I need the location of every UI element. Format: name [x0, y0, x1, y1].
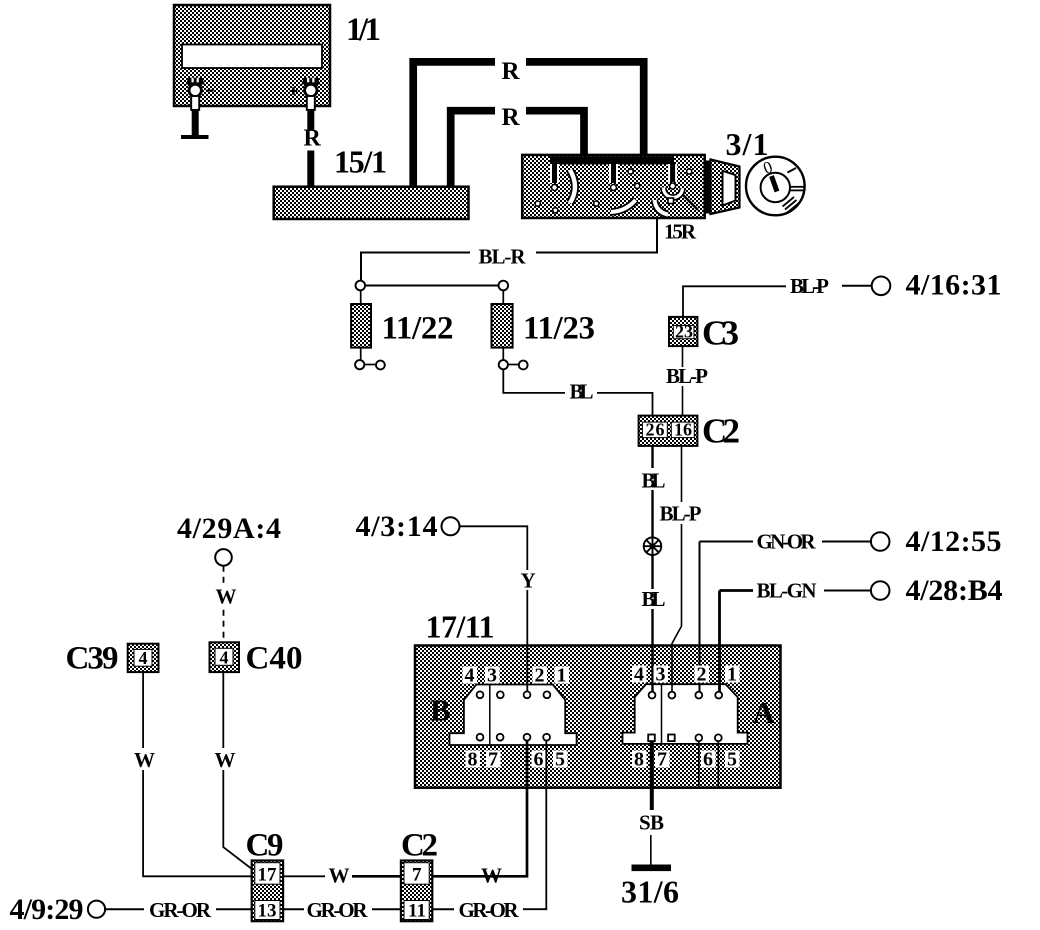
terminal circle 4/16:31	[872, 277, 891, 296]
wire	[143, 770, 252, 876]
wire GR-OR to C9	[105, 908, 144, 910]
B pin labels 4 3 2 1	[463, 665, 570, 687]
svg-text:GR-OR: GR-OR	[307, 898, 369, 922]
component 17/11 body	[415, 646, 781, 788]
wire	[842, 285, 872, 287]
svg-text:W: W	[215, 748, 236, 772]
svg-text:BL-P: BL-P	[660, 502, 702, 526]
ground symbol at battery	[181, 135, 209, 139]
terminal circle 4/12:55	[871, 532, 890, 551]
wire A5 to box edge	[717, 741, 719, 787]
wire R battery positive to bus 15/1	[307, 110, 314, 130]
wire	[216, 908, 252, 910]
svg-text:A: A	[753, 695, 776, 730]
wire	[503, 875, 527, 877]
svg-text:R: R	[502, 104, 521, 131]
svg-text:GN-OR: GN-OR	[757, 530, 817, 554]
wire	[283, 908, 304, 910]
svg-text:B: B	[430, 693, 451, 728]
svg-text:BL-GN: BL-GN	[757, 579, 817, 603]
svg-text:3: 3	[487, 665, 497, 687]
svg-text:C9: C9	[246, 828, 284, 864]
svg-text:16: 16	[674, 420, 692, 440]
fuse 11/22	[351, 281, 385, 370]
dashed wire W to C40	[223, 566, 225, 644]
wire	[526, 111, 584, 156]
svg-text:7: 7	[412, 865, 422, 886]
svg-text:4/16:31: 4/16:31	[906, 269, 1002, 302]
switch small contacts	[535, 169, 692, 213]
svg-text:7: 7	[488, 749, 498, 771]
switch claw contact	[663, 188, 682, 198]
connector face A divider	[661, 684, 663, 744]
connector face B divider	[489, 685, 491, 746]
svg-text:Y: Y	[521, 569, 536, 593]
wire BL-R from switch	[536, 219, 657, 253]
wire BL-R left segment	[361, 253, 470, 282]
svg-text:17: 17	[258, 865, 278, 886]
connector C2	[639, 416, 698, 446]
wire W from B6 down	[352, 741, 527, 877]
svg-text:4/12:55: 4/12:55	[906, 525, 1002, 558]
svg-text:11/22: 11/22	[382, 311, 454, 347]
wire with diagonal into C9	[223, 770, 252, 870]
ignition switch internal bus bar	[550, 156, 674, 164]
svg-text:GR-OR: GR-OR	[149, 898, 212, 922]
svg-text:17/11: 17/11	[426, 609, 495, 645]
svg-text:C39: C39	[66, 641, 119, 677]
svg-text:4/28:B4: 4/28:B4	[906, 574, 1003, 607]
svg-text:BL: BL	[642, 587, 666, 611]
svg-text:13: 13	[258, 901, 277, 922]
svg-text:4: 4	[634, 664, 644, 686]
svg-text:W: W	[134, 748, 155, 772]
switch wafer arc 3	[655, 200, 669, 215]
battery negative terminal	[186, 78, 214, 110]
svg-text:BL-R: BL-R	[479, 245, 527, 269]
wire BL-GN to terminal 4/28:B4	[720, 589, 754, 592]
wire BL splice down	[651, 555, 653, 589]
terminal circle 4/3:14	[442, 517, 460, 535]
wire fuse link top	[361, 285, 503, 287]
svg-text:R: R	[304, 126, 322, 152]
wire BL-P C2:16 down	[681, 446, 683, 502]
connector C39	[128, 644, 159, 672]
wire	[372, 908, 401, 910]
svg-text:8: 8	[468, 749, 478, 771]
bus bar 15/1	[274, 187, 469, 219]
svg-text:1: 1	[727, 664, 737, 686]
svg-text:6: 6	[703, 749, 713, 771]
A pin labels 4 3 2 1	[632, 664, 740, 686]
svg-text:15R: 15R	[664, 220, 697, 244]
wire SB from A8 to ground	[650, 741, 654, 810]
wire battery negative to ground	[192, 110, 199, 135]
switch contact stub 2	[611, 164, 617, 191]
svg-text:6: 6	[534, 749, 544, 771]
switch wafer arc 1	[570, 170, 575, 203]
svg-text:11/23: 11/23	[523, 311, 595, 347]
ignition switch 3/1 body	[522, 155, 705, 218]
wire GR-OR from B5 down	[523, 741, 546, 909]
terminal circle 4/28:B4	[871, 581, 890, 600]
wire	[526, 62, 644, 156]
wire	[307, 151, 314, 189]
wire BL-P to terminal 4/16:31	[683, 286, 786, 317]
battery positive terminal	[290, 78, 321, 110]
switch contact diagonal	[683, 195, 698, 210]
svg-text:26: 26	[646, 420, 665, 440]
svg-text:5: 5	[555, 749, 565, 771]
svg-text:31/6: 31/6	[621, 874, 679, 910]
splice junction	[644, 537, 662, 555]
svg-text:3/1: 3/1	[726, 126, 769, 162]
key connector barrel	[706, 160, 740, 215]
svg-text:23: 23	[675, 322, 693, 342]
switch contact stub 1	[552, 164, 558, 191]
connector C2 lower	[401, 861, 432, 922]
connector C40	[210, 642, 240, 672]
wire BL C2:26 down	[651, 446, 653, 468]
wire R bus to ignition switch (lower)	[451, 111, 495, 187]
svg-text:C2: C2	[702, 412, 740, 451]
wire GR-OR C2 right segment	[432, 908, 454, 910]
A pin contacts bottom row	[648, 734, 721, 741]
wire R bus to ignition switch (upper)	[413, 62, 495, 187]
wire	[682, 386, 684, 415]
svg-text:2: 2	[697, 664, 707, 686]
wire BL-P into A3	[672, 524, 682, 695]
connector face B outline	[450, 685, 577, 746]
wire	[597, 393, 653, 415]
wire GN-OR into A2	[699, 542, 701, 696]
B pin circles top row	[477, 691, 551, 698]
connector C3	[669, 317, 697, 346]
svg-text:4: 4	[139, 648, 148, 668]
fuse 11/23	[492, 281, 528, 370]
svg-text:SB: SB	[639, 811, 664, 835]
svg-text:4/9:29: 4/9:29	[10, 893, 84, 926]
wire A6 to box edge	[698, 741, 700, 787]
wire Y into B2	[526, 590, 528, 695]
svg-text:BL: BL	[570, 380, 594, 404]
svg-text:3: 3	[656, 664, 666, 686]
svg-text:BL-P: BL-P	[790, 274, 829, 298]
svg-text:C2: C2	[401, 828, 438, 864]
svg-text:BL: BL	[642, 469, 666, 493]
svg-text:4: 4	[465, 665, 475, 687]
wire BL fuse to C2	[503, 369, 565, 393]
wire	[651, 490, 653, 537]
wire W C9 to C2	[283, 875, 325, 877]
wire GN-OR to terminal 4/12:55	[700, 541, 754, 543]
A pin circles top row	[649, 692, 723, 699]
svg-text:BL-P: BL-P	[666, 364, 708, 388]
key cylinder symbol	[746, 157, 805, 216]
svg-text:C40: C40	[246, 641, 303, 677]
svg-text:4/29A:4: 4/29A:4	[177, 512, 281, 545]
svg-text:C3: C3	[702, 314, 739, 353]
svg-text:W: W	[216, 585, 237, 609]
svg-text:7: 7	[657, 749, 667, 771]
svg-text:1/1: 1/1	[346, 12, 381, 48]
svg-text:2: 2	[535, 665, 545, 687]
connector C9	[252, 861, 283, 922]
wire label W chip	[214, 587, 234, 607]
wire	[824, 590, 871, 592]
switch wafer arc 2	[611, 200, 636, 212]
wire W from C40	[222, 672, 224, 748]
svg-text:5: 5	[727, 749, 737, 771]
connector face A outline	[623, 684, 748, 744]
wire BL-GN into A1	[718, 591, 721, 696]
switch contact stub 3	[670, 164, 676, 189]
svg-text:W: W	[481, 864, 502, 888]
svg-text:15/1: 15/1	[334, 144, 387, 180]
terminal circle 4/29A:4	[215, 549, 232, 566]
svg-text:4: 4	[220, 648, 229, 668]
svg-text:GR-OR: GR-OR	[459, 898, 520, 922]
wire W from C39	[142, 672, 144, 748]
wire	[822, 541, 871, 543]
svg-text:8: 8	[634, 749, 644, 771]
wire	[650, 835, 652, 865]
B pin circles bottom row	[477, 734, 550, 741]
battery 1/1 body	[174, 5, 330, 106]
wire Y from 4/3:14	[460, 526, 528, 570]
svg-text:4/3:14: 4/3:14	[356, 510, 438, 543]
B pin labels 8 7 6 5	[466, 749, 568, 771]
svg-text:R: R	[502, 58, 521, 85]
A pin labels 8 7 6 5	[632, 749, 740, 771]
terminal circle 4/9:29	[88, 901, 105, 918]
svg-text:W: W	[329, 864, 350, 888]
wire BL into A4	[651, 609, 653, 695]
ground symbol 31/6	[632, 865, 672, 872]
wire W C2 right segment	[432, 875, 478, 877]
svg-text:11: 11	[408, 901, 426, 922]
wire BL-P C3 to C2	[682, 346, 684, 367]
svg-text:1: 1	[557, 665, 567, 687]
